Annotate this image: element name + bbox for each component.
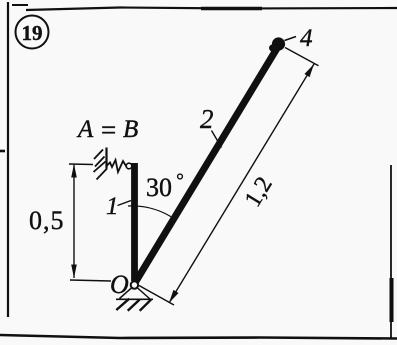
svg-text:0,5: 0,5 — [29, 206, 65, 235]
roller circle at spring end — [126, 163, 132, 169]
dimension 1,2 line — [169, 64, 314, 303]
leader line for label 2 — [212, 131, 222, 148]
wall hatching — [94, 150, 108, 180]
svg-text:19: 19 — [22, 21, 43, 45]
svg-text:1: 1 — [106, 193, 119, 220]
frame border left — [0, 2, 8, 317]
problem number circle 19 — [16, 16, 49, 49]
dimension 1,2 extension line from pin 4 — [285, 48, 319, 66]
dimension 0,5 extension tick top — [69, 163, 93, 166]
svg-text:2: 2 — [200, 104, 214, 134]
dimension 0,5 arrow top — [71, 164, 77, 178]
tick to label 4 — [285, 37, 297, 41]
dimension 1,2 arrow top — [304, 64, 314, 77]
dimension 0,5 line — [73, 165, 75, 278]
frame border right — [390, 165, 393, 339]
pivot hatching — [116, 299, 151, 311]
svg-text:B: B — [123, 116, 138, 143]
dimension 1,2 arrow bottom — [169, 290, 179, 303]
svg-text:O: O — [110, 270, 129, 299]
dimension 0,5 extension tick bottom — [70, 280, 111, 281]
svg-text:30: 30 — [146, 173, 172, 202]
pivot triangle legs — [120, 288, 151, 300]
degree mark — [178, 174, 183, 179]
dimension 0,5 arrow bottom — [71, 265, 77, 279]
pin joint 4 (top dot) — [269, 37, 285, 52]
frame border bottom — [0, 335, 397, 339]
svg-text:=: = — [101, 115, 116, 145]
dimension 1,2 extension line from O — [139, 286, 174, 306]
leader line for label 1 — [118, 201, 132, 206]
pivot base line — [116, 298, 153, 300]
pin at O — [131, 281, 138, 288]
wall (fixed support) — [105, 148, 107, 169]
svg-text:A: A — [76, 116, 94, 143]
spring — [107, 160, 126, 172]
angle arc 30 degrees — [128, 206, 176, 220]
svg-text:4: 4 — [300, 25, 313, 52]
bar 2 (diagonal link) — [136, 45, 280, 282]
frame border top — [12, 5, 397, 10]
bar 1 (vertical link) — [131, 163, 138, 281]
